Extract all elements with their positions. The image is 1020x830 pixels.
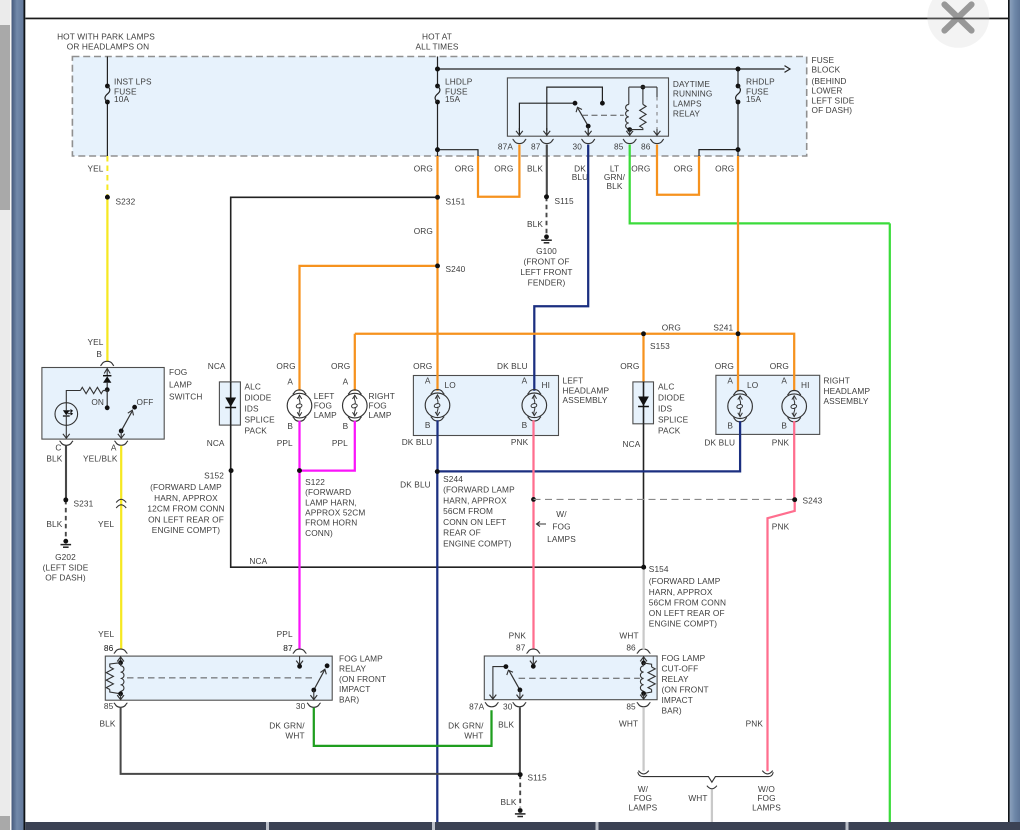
svg-text:56CM FROM CONN: 56CM FROM CONN [649,597,726,607]
left headlamp assembly box [413,376,558,436]
svg-text:ENGINE COMPT): ENGINE COMPT) [152,525,221,535]
svg-text:ORG: ORG [770,361,789,371]
svg-text:10A: 10A [114,94,129,104]
svg-text:YEL: YEL [87,163,103,173]
svg-text:RELAY: RELAY [662,674,690,684]
svg-text:HEADLAMP: HEADLAMP [563,385,610,395]
wire PNK right HI-B to S243 [793,421,795,500]
wire BLK cutoff 30 to S115 [519,707,521,774]
relay pin arcs [513,139,527,143]
svg-text:RUNNING: RUNNING [673,89,713,99]
svg-text:LAMPS: LAMPS [673,99,702,109]
svg-text:OF DASH): OF DASH) [45,572,86,582]
svg-text:(ON FRONT: (ON FRONT [662,685,709,695]
svg-text:ORG: ORG [715,163,734,173]
svg-text:S122: S122 [305,477,325,487]
svg-text:INST LPS: INST LPS [114,76,152,86]
node S151 [435,195,440,200]
relay coil top link to 86 [629,86,657,88]
svg-text:ORG: ORG [455,163,474,173]
svg-text:BAR): BAR) [339,694,359,704]
svg-text:LOWER: LOWER [812,86,843,96]
wire WHT cutoff 85 down [642,707,644,771]
svg-text:S241: S241 [713,323,733,333]
left scrollbar thumb [0,25,10,210]
relay resistor [642,87,644,104]
svg-text:PNK: PNK [746,718,764,728]
fog lamp relay box [105,656,332,700]
svg-text:LAMPS: LAMPS [547,534,576,544]
svg-text:YEL: YEL [98,629,114,639]
node S244 [435,469,440,474]
wire NCA S151 to left [231,197,438,382]
close button [927,0,989,48]
svg-text:BLK: BLK [99,719,115,729]
svg-text:ORG: ORG [413,361,432,371]
wire BLK switch C to S231 [65,446,67,500]
svg-text:S154: S154 [649,564,669,574]
wire DK GRN/WHT fog relay 30 to cutoff 87A [314,708,492,746]
wire BLK fog relay 85 to S115 [121,708,521,774]
svg-text:NCA: NCA [623,439,641,449]
svg-text:A: A [727,376,733,386]
wire ORG 86 loop [657,156,699,195]
wire WHT S154 to cutoff 86 [643,567,645,630]
svg-text:HARN, APPROX: HARN, APPROX [649,587,713,597]
wire ORG S241 to right headlamp HI [738,334,794,391]
svg-text:S231: S231 [74,498,94,508]
node S241 [736,331,741,336]
svg-text:WHT: WHT [285,731,304,741]
svg-text:LAMPS: LAMPS [629,803,658,813]
node S115 top [544,194,549,199]
svg-text:SWITCH: SWITCH [169,392,202,402]
fog relay switch [325,663,330,668]
svg-text:BLOCK: BLOCK [812,65,841,75]
svg-text:PNK: PNK [509,630,527,640]
svg-text:A: A [781,376,787,386]
dashed link S243 [531,497,536,502]
svg-text:85: 85 [614,142,624,152]
svg-text:DIODE: DIODE [245,392,272,402]
svg-text:IDS: IDS [658,403,673,413]
svg-text:LEFT FRONT: LEFT FRONT [520,267,572,277]
svg-text:DK BLU: DK BLU [497,361,528,371]
svg-text:REAR OF: REAR OF [443,528,481,538]
svg-text:SPLICE: SPLICE [658,415,689,425]
right headlamp HI lamp [782,394,807,419]
relay coil [628,87,630,104]
svg-text:IMPACT: IMPACT [662,695,693,705]
svg-text:ORG: ORG [414,226,433,236]
svg-text:BLU: BLU [572,172,589,182]
wire LT GRN/BLK 85 across [630,156,890,223]
fuse block (dashed box) [72,57,806,157]
svg-text:DAYTIME: DAYTIME [673,79,710,89]
fog relay pin arcs top [114,649,128,653]
fog relay dashed line [127,677,313,679]
svg-text:BLK: BLK [500,797,516,807]
left fog lamp [287,393,312,418]
node S232 [105,195,110,200]
junction dot RHDLP to 86 [736,147,741,152]
svg-text:DK BLU: DK BLU [400,479,431,489]
svg-text:S244: S244 [443,474,463,484]
svg-text:86: 86 [104,643,114,653]
relay switch blade [578,108,588,126]
diagram right border [1008,0,1010,830]
wire ORG S151-S240 [436,197,438,266]
break arc WHT end [638,771,648,774]
wire ORG LHDLP down [436,156,438,197]
svg-text:ORG: ORG [620,361,639,371]
fog relay 87 contact [299,656,301,666]
svg-text:ENGINE COMPT): ENGINE COMPT) [649,619,718,629]
svg-text:12CM FROM CONN: 12CM FROM CONN [147,503,224,513]
wire BLK 87 to S115 [546,156,548,197]
relay 87A riser [519,103,575,131]
svg-text:NCA: NCA [249,556,267,566]
svg-text:IMPACT: IMPACT [339,684,370,694]
wire YEL switch A down [120,446,122,650]
svg-text:WHT: WHT [619,630,638,640]
svg-text:RHDLP: RHDLP [746,76,775,86]
node S122 [297,468,302,473]
bottom table bar [25,822,1020,830]
fog lamp cut-off relay box [484,656,657,700]
svg-text:LHDLP: LHDLP [445,76,473,86]
svg-text:BLK: BLK [527,219,543,229]
svg-text:LAMP: LAMP [169,379,192,389]
svg-text:FOG LAMP: FOG LAMP [662,653,706,663]
svg-text:CONN): CONN) [305,528,333,538]
wire INST LPS fuse feed [106,57,108,87]
svg-text:CUT-OFF: CUT-OFF [662,664,699,674]
svg-text:OR HEADLAMPS ON: OR HEADLAMPS ON [67,42,149,52]
svg-text:87: 87 [531,142,541,152]
svg-text:B: B [343,421,349,431]
svg-text:S152: S152 [204,471,224,481]
svg-text:S151: S151 [446,197,466,207]
fuse INST LPS 10A [105,84,110,89]
right headlamp LO lamp [728,394,753,419]
svg-text:S115: S115 [555,196,575,206]
wire RHDLP fuse [737,69,739,86]
cutoff 87 contact [532,656,534,666]
svg-text:RELAY: RELAY [339,664,367,674]
svg-text:ALC: ALC [245,381,262,391]
break arc PNK end [762,771,772,774]
bracket below breaks [638,772,773,782]
switch input arrow [106,369,108,376]
ground G bottom [518,808,523,813]
svg-text:FOG: FOG [169,367,187,377]
wire ORG to right fog lamp [354,334,356,391]
svg-text:87: 87 [283,643,293,653]
wire ORG S153 to right ALC [642,334,644,382]
wire LHDLP fuse [437,69,439,86]
svg-text:FROM HORN: FROM HORN [305,518,357,528]
diagram left border [24,0,26,830]
svg-text:APPROX 52CM: APPROX 52CM [305,508,365,518]
svg-text:(BEHIND: (BEHIND [812,76,847,86]
cutoff pin arcs top [527,649,541,653]
cutoff coil [643,656,645,663]
svg-text:YEL/BLK: YEL/BLK [83,453,118,463]
svg-text:LO: LO [747,380,759,390]
svg-text:(ON FRONT: (ON FRONT [339,674,386,684]
svg-text:ASSEMBLY: ASSEMBLY [824,396,869,406]
svg-text:B: B [781,421,787,431]
junction dot LHDLP to 87A [435,147,440,152]
svg-text:LEFT: LEFT [314,391,335,401]
ALC left diode [230,382,232,425]
svg-text:HEADLAMP: HEADLAMP [824,386,871,396]
svg-text:PPL: PPL [277,438,293,448]
svg-text:85: 85 [104,701,114,711]
daytime running lamps relay box [507,78,668,136]
svg-text:S243: S243 [803,495,823,505]
svg-text:FOG: FOG [369,401,387,411]
break arc bracket tail [707,786,717,789]
svg-text:DK GRN/: DK GRN/ [269,720,305,730]
switch blade [121,411,132,431]
node S243 dot overlay [792,497,797,502]
svg-text:ALC: ALC [658,381,675,391]
node S115 bottom [518,772,523,777]
svg-text:PNK: PNK [772,522,790,532]
svg-text:WHT: WHT [619,718,638,728]
svg-text:BLK: BLK [498,719,514,729]
ground G202 [63,539,68,544]
svg-text:87: 87 [516,643,526,653]
svg-text:CONN ON LEFT: CONN ON LEFT [443,517,506,527]
svg-text:B: B [522,420,528,430]
cutoff pin arcs bottom [485,702,499,706]
wire WHT bracket tail down [711,790,713,822]
cutoff 87A branch [493,667,506,700]
fog lamp switch box [42,368,164,440]
wire NCA right ALC to S154 [643,424,645,567]
svg-text:W/: W/ [556,509,567,519]
switch pin arcs bottom [60,441,74,445]
svg-text:PNK: PNK [511,437,529,447]
ALC diode IDS splice pack left box [219,382,240,425]
svg-text:G100: G100 [536,246,557,256]
svg-text:IDS: IDS [245,403,260,413]
svg-text:ASSEMBLY: ASSEMBLY [563,395,608,405]
svg-text:LAMP HARN,: LAMP HARN, [305,497,357,507]
switch diode [103,376,111,383]
svg-text:ORG: ORG [631,163,650,173]
svg-text:RELAY: RELAY [673,109,701,119]
wire NCA left ALC to S152 [230,425,232,471]
svg-text:B: B [287,421,293,431]
junction dots overlay [435,195,440,200]
relay pin stubs [518,145,520,157]
break symbol YEL [116,499,126,502]
relay 30 riser [587,126,589,136]
svg-text:ENGINE COMPT): ENGINE COMPT) [443,539,512,549]
node S152 [229,468,234,473]
svg-text:(FORWARD LAMP: (FORWARD LAMP [443,485,515,495]
svg-text:LAMPS: LAMPS [752,803,781,813]
svg-text:ORG: ORG [674,163,693,173]
svg-text:A: A [287,376,293,386]
svg-text:85: 85 [626,702,636,712]
svg-text:86: 86 [641,142,651,152]
left headlamp HI lamp [522,393,547,418]
fog relay pin arcs bottom [114,703,128,707]
wire DK BLU left LO-B to S244 [436,420,438,471]
cutoff switch blade [509,670,520,690]
svg-text:30: 30 [503,702,513,712]
wire ORG S240 to left headlamp LO [436,266,438,391]
node S154 [641,565,646,570]
svg-text:WHT: WHT [464,731,483,741]
svg-text:B: B [425,420,431,430]
ALC right diode [643,382,645,424]
svg-text:FUSE: FUSE [812,55,835,65]
left headlamp LO lamp [425,393,450,418]
switch OFF contact [132,405,137,410]
svg-text:30: 30 [573,142,583,152]
svg-text:S115: S115 [528,773,548,783]
svg-text:ON LEFT REAR OF: ON LEFT REAR OF [148,514,224,524]
svg-text:RIGHT: RIGHT [369,391,395,401]
svg-text:PACK: PACK [658,426,681,436]
relay 85 riser [629,130,631,136]
svg-text:(FORWARD LAMP: (FORWARD LAMP [649,576,721,586]
switch LED to pin C [65,425,67,438]
svg-text:ORG: ORG [414,163,433,173]
wire NCA S152 to S154 [231,471,644,568]
svg-text:A: A [522,376,528,386]
switch pin B arc [100,361,114,365]
relay 87 riser [547,87,603,131]
svg-text:PPL: PPL [332,438,348,448]
relay 86 riser [656,87,658,97]
svg-text:LAMP: LAMP [314,410,337,420]
relay coil dashed link [582,114,624,116]
right headlamp assembly box [716,375,820,434]
svg-text:B: B [727,421,733,431]
fuse RHDLP 15A [736,84,741,89]
wire DK BLU 30 to left HI lamp [534,156,588,391]
svg-text:15A: 15A [445,94,460,104]
node S231 [63,498,68,503]
svg-text:HARN, APPROX: HARN, APPROX [443,495,507,505]
svg-text:DIODE: DIODE [658,392,685,402]
switch junction dot [105,387,110,392]
wire BLK S115 to ground (dashed) [519,775,521,808]
switch resistor [80,387,103,393]
node S153 [641,331,646,336]
diagram top border [25,18,1008,20]
wire PPL right fog to S122 [300,421,355,471]
wire DK BLU S244 down [436,471,438,822]
svg-text:WHT: WHT [688,793,707,803]
wire PNK left HI-B to cutoff relay [532,420,534,649]
svg-text:RIGHT: RIGHT [824,376,850,386]
svg-text:FENDER): FENDER) [528,277,566,287]
wire WHT cutoff 86 from above [642,630,644,650]
svg-text:ORG: ORG [662,323,681,333]
svg-text:(LEFT SIDE: (LEFT SIDE [43,563,89,573]
svg-text:OF DASH): OF DASH) [812,105,853,115]
svg-text:HI: HI [801,380,810,390]
svg-text:SPLICE: SPLICE [245,415,276,425]
wire ORG RHDLP to S241 [737,156,739,334]
svg-text:87A: 87A [498,142,513,152]
right fog lamp [343,393,368,418]
svg-text:S240: S240 [446,264,466,274]
svg-text:ORG: ORG [331,361,350,371]
svg-text:ORG: ORG [494,163,513,173]
wire PNK S243 down [768,500,795,772]
svg-text:S232: S232 [116,196,136,206]
svg-text:HOT WITH PARK LAMPS: HOT WITH PARK LAMPS [57,32,155,42]
svg-text:BLK: BLK [606,181,622,191]
wire hot-at-all-times feed [437,57,439,70]
svg-text:HOT AT: HOT AT [422,32,452,42]
svg-text:LAMP: LAMP [369,410,392,420]
svg-text:HI: HI [542,380,551,390]
right blue panel edge [1010,0,1020,830]
wire LT GRN/BLK right vertical [889,223,891,822]
cutoff dashed line [519,677,640,679]
wire ORG S240 to left fog lamp [300,266,438,391]
svg-text:(FORWARD: (FORWARD [305,487,351,497]
node S240 [435,264,440,269]
ground G100 [544,234,549,239]
wire BLK S231 to G202 (dashed) [65,500,67,539]
svg-text:A: A [343,376,349,386]
svg-text:LEFT: LEFT [563,376,584,386]
svg-text:NCA: NCA [208,361,226,371]
svg-text:DK GRN/: DK GRN/ [448,720,484,730]
wire YEL fuse to S232 (dashed) [106,156,108,197]
svg-text:PPL: PPL [277,629,293,639]
svg-text:NCA: NCA [207,438,225,448]
svg-text:PNK: PNK [772,438,790,448]
wire DK BLU S244 to right LO-B [437,421,740,471]
wire PPL S122 to fog relay [298,471,300,650]
svg-text:A: A [111,442,117,452]
svg-text:YEL: YEL [98,519,114,529]
wire ORG 87A loop [478,156,519,197]
svg-text:B: B [96,349,102,359]
wire YEL S232 to switch [106,197,108,361]
svg-text:ON: ON [91,397,104,407]
switch ON contact [106,390,108,408]
svg-text:S153: S153 [650,341,670,351]
svg-text:YEL: YEL [87,337,103,347]
svg-text:86: 86 [626,643,636,653]
left blue panel edge [10,0,12,830]
wire BLK S115 to G100 (dashed) [546,197,548,234]
wire ORG S241 to right headlamp LO [737,334,739,391]
svg-text:87A: 87A [469,702,484,712]
svg-text:ALL TIMES: ALL TIMES [415,42,458,52]
svg-text:30: 30 [296,701,306,711]
svg-text:OFF: OFF [137,397,154,407]
left scrollbar track [0,0,10,830]
svg-text:(FORWARD LAMP: (FORWARD LAMP [150,482,222,492]
svg-text:FOG: FOG [314,401,332,411]
svg-text:DK BLU: DK BLU [402,437,433,447]
svg-text:BLK: BLK [46,519,62,529]
